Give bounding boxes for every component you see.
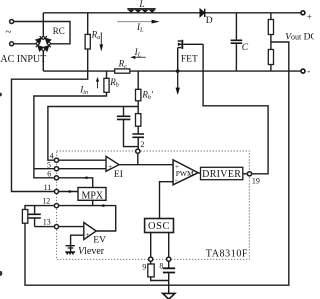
arrow pin 11 into MPX [69,190,74,193]
svg-text:-: - [307,66,310,76]
pin 11 node [54,189,58,193]
wire output divider [270,13,272,71]
inductor L [127,8,155,13]
svg-text:D: D [206,16,213,26]
wire pin 13 row [59,226,84,228]
wire pin 11 to MPX [59,191,78,193]
pin 5 node [54,167,58,171]
wire left branch capacitor [124,107,139,147]
bridge rectifier [36,36,51,51]
svg-text:EI: EI [114,170,123,180]
op-amp EI [106,156,119,171]
svg-text:DRIVER: DRIVER [202,169,241,180]
wire OSC to pin 8 [168,233,170,258]
pin 6 node [54,176,58,180]
wire DRIVER to pin 19 [243,173,248,175]
svg-text:MPX: MPX [81,190,103,201]
wire pin 12 row left to RC network [25,206,54,210]
current arrow through Ra [100,32,102,45]
pin 8 node [167,257,171,261]
wire AC line 2 to bridge [14,43,36,45]
left RC network capacitor [29,214,41,218]
resistor divider upper [268,20,273,35]
output terminal minus [301,69,305,73]
wire left cap branch pins 12-13 [35,206,55,227]
capacitor C3 left branch [117,116,130,119]
ground Vlevel [65,246,75,255]
svg-text:IL: IL [136,22,144,33]
AC terminal bottom [10,42,14,46]
wire pin 4 row to EI [59,159,106,161]
svg-text:FET: FET [181,55,198,65]
wire divider sense and ground rail [25,42,289,285]
current arrow IL return [135,56,146,58]
left RC network resistor [22,210,27,224]
IC dashed boundary TA8310F [57,151,250,259]
svg-text:Vlever: Vlever [78,246,105,257]
resistor Ra [85,34,90,49]
wire PWM lower input to OSC [160,182,174,219]
pin 12 node [54,204,58,208]
wire top rail [43,12,301,14]
svg-text:Rb: Rb [109,77,119,89]
driver U2 [201,167,243,179]
svg-text:5: 5 [47,160,51,169]
resistor Rb' [136,89,141,101]
svg-text:AC INPUT: AC INPUT [0,54,46,65]
current arrow IL [117,21,152,23]
wire EV plus input [71,235,84,245]
wire MPX bottom stub to pin 12 row [92,200,94,205]
svg-text:~: ~ [5,26,11,38]
resistor Rc [115,69,130,73]
svg-text:11: 11 [44,183,52,192]
wire Rb to pins 5 and 6 [34,71,107,178]
output terminal plus [301,11,305,15]
oscillator OSC [145,219,174,233]
AC terminal top [10,20,14,24]
pin 19 node [247,172,251,176]
wire pin 8 capacitor to ground [168,261,170,294]
pin 4 node [54,158,58,162]
current arrow Iin [97,81,99,88]
wire bridge plus lead [42,13,44,36]
op-amp PWM [173,160,198,185]
svg-text:+: + [307,12,312,22]
wire OSC to pin 9 [150,233,152,258]
svg-text:Ra: Ra [91,30,101,42]
arrow EV output to pin 12 [100,204,105,207]
diode D [200,9,205,17]
svg-text:6: 6 [47,170,51,179]
svg-text:12: 12 [42,197,50,206]
svg-text:13: 13 [43,217,51,226]
svg-text:RC: RC [53,26,65,36]
transistor FET [178,40,203,71]
ground symbol bottom [163,293,175,299]
svg-text:Iin: Iin [79,84,88,96]
svg-text:+: + [108,162,112,171]
wire bridge minus lead [42,51,44,71]
wire node A to pin 4 [48,107,138,161]
svg-text:PWM: PWM [176,169,194,178]
wire Ra to pin 11 [12,13,88,192]
svg-text:Vout DC: Vout DC [285,32,314,42]
svg-text:TA8310F: TA8310F [206,249,248,260]
svg-text:IL: IL [134,47,142,59]
wire bottom rail [43,70,301,72]
svg-text:Rc: Rc [118,58,128,70]
svg-text:+: + [85,231,89,239]
wire pin 9 resistor leads [151,261,169,280]
resistor Rb [104,78,109,92]
svg-text:9: 9 [142,262,146,271]
current arrow ID [177,71,179,88]
pin 13 node [54,225,58,229]
svg-text:EV: EV [93,235,106,245]
capacitor C [231,40,243,43]
resistor on pin 9 [148,264,154,277]
wire gate drive path pin 19 to FET gate [203,44,268,174]
capacitor C2 in Rb' chain [132,134,144,137]
wire pin 6 row to MPX top [59,178,93,188]
wire EI output [119,164,173,166]
svg-text:19: 19 [252,176,260,185]
wire PWM output [198,172,200,174]
pin 9 node [149,257,153,261]
svg-text:4: 4 [50,151,54,160]
resistor divider lower [268,50,273,65]
scan mark lower [0,271,2,276]
svg-text:Rb': Rb' [141,89,154,101]
wire EV output wrap to pin 12 [59,206,116,231]
wire AC line 1 to RC loop [14,22,70,44]
capacitor on pin 8 [163,268,175,272]
arrow MPX output to EI input [83,176,88,179]
wire capacitor C leads [235,13,237,71]
resistor R2 in Rb' chain [136,114,141,127]
svg-text:2: 2 [140,140,144,149]
svg-text:C: C [242,43,249,53]
pin 2 node [136,149,140,153]
multiplexer MPX [78,188,106,201]
svg-text:8: 8 [159,262,163,271]
junction node FET source on rail [176,69,180,73]
svg-text:L: L [138,0,144,10]
wire pin 5 row to EI [59,168,106,170]
scan mark upper [0,93,2,97]
svg-text:OSC: OSC [148,221,170,232]
wire Rb' chain to pin 2 [137,71,139,149]
op-amp EV [84,223,96,240]
wire pin 2 lead [137,153,139,164]
